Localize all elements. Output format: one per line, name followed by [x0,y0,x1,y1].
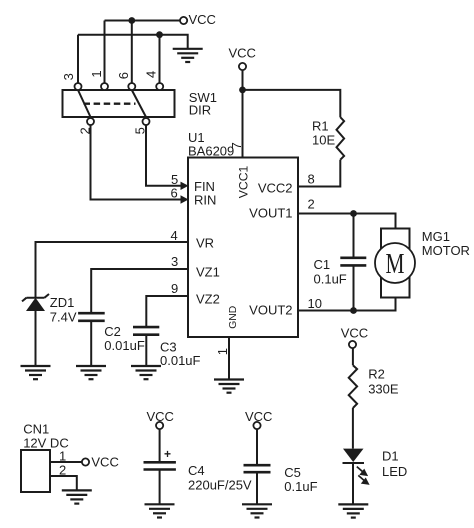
svg-text:1: 1 [59,449,66,464]
svg-text:LED: LED [382,464,407,479]
svg-text:CN1: CN1 [23,422,49,437]
svg-text:0.01uF: 0.01uF [104,338,145,353]
svg-text:DIR: DIR [189,103,211,118]
svg-text:VZ2: VZ2 [196,292,220,307]
svg-text:VCC: VCC [245,409,272,424]
svg-text:3: 3 [61,73,76,80]
svg-text:VOUT1: VOUT1 [249,205,292,220]
svg-text:VCC1: VCC1 [237,165,251,198]
svg-text:VCC: VCC [341,326,368,341]
svg-text:VCC: VCC [189,12,216,27]
svg-text:5: 5 [132,127,147,134]
svg-text:C2: C2 [104,324,121,339]
svg-text:ZD1: ZD1 [50,295,75,310]
svg-text:10E: 10E [312,133,335,148]
svg-text:10: 10 [308,296,322,311]
svg-text:BA6209: BA6209 [188,144,234,159]
svg-text:MOTOR: MOTOR [422,243,470,258]
svg-text:2: 2 [77,127,92,134]
svg-text:1: 1 [215,348,230,355]
svg-text:VCC2: VCC2 [258,181,293,196]
svg-text:R1: R1 [312,119,329,134]
svg-text:+: + [164,447,171,461]
svg-text:4: 4 [171,228,178,243]
svg-text:VOUT2: VOUT2 [249,302,292,317]
svg-text:9: 9 [171,281,178,296]
svg-text:RIN: RIN [194,193,216,208]
svg-text:7.4V: 7.4V [50,310,77,325]
svg-text:C1: C1 [314,257,331,272]
svg-text:D1: D1 [382,449,399,464]
svg-text:VCC: VCC [91,455,118,470]
svg-text:C4: C4 [188,463,205,478]
svg-text:GND: GND [228,306,239,329]
svg-text:6: 6 [171,186,178,201]
svg-text:1: 1 [89,70,104,77]
svg-text:R2: R2 [368,367,385,382]
svg-text:0.1uF: 0.1uF [284,479,317,494]
svg-text:VR: VR [196,236,214,251]
svg-text:4: 4 [144,71,159,78]
svg-text:330E: 330E [368,382,399,397]
svg-text:0.1uF: 0.1uF [314,272,347,287]
svg-text:VCC: VCC [147,409,174,424]
svg-text:0.01uF: 0.01uF [160,353,201,368]
svg-text:VZ1: VZ1 [196,265,220,280]
svg-text:8: 8 [308,171,315,186]
svg-text:VCC: VCC [229,45,256,60]
svg-text:6: 6 [116,72,131,79]
svg-text:3: 3 [171,254,178,269]
svg-text:M: M [386,249,405,280]
svg-text:7: 7 [229,142,244,149]
svg-text:220uF/25V: 220uF/25V [188,478,252,493]
svg-text:2: 2 [59,463,66,478]
svg-text:2: 2 [308,196,315,211]
svg-text:MG1: MG1 [422,229,450,244]
svg-text:C5: C5 [284,465,301,480]
